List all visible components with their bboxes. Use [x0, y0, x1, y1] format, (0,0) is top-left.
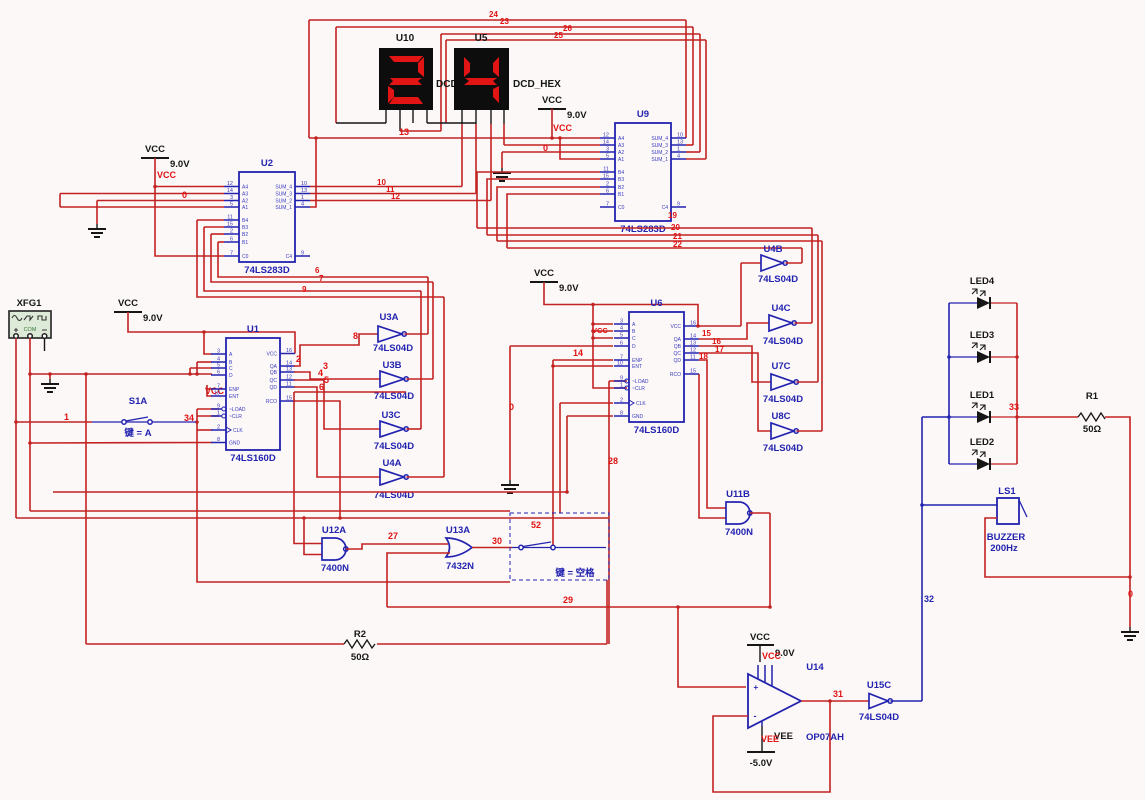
wire COM row to U1 D	[30, 373, 212, 375]
svg-text:U10: U10	[396, 33, 415, 44]
svg-text:11: 11	[286, 382, 292, 388]
wire U2 A3 row	[60, 193, 224, 195]
wire net 34 down long row	[197, 409, 510, 582]
svg-text:5: 5	[606, 154, 609, 160]
wire net 25 right drop to U9 SUM1	[705, 40, 707, 159]
svg-text:8: 8	[353, 331, 358, 341]
wire net 27 U12A out to U13A	[346, 544, 448, 549]
switch S1A key A	[92, 396, 196, 439]
svg-text:28: 28	[608, 456, 618, 466]
ground near XFG1	[49, 379, 51, 384]
svg-text:RCO: RCO	[670, 372, 681, 378]
svg-text:2: 2	[620, 398, 623, 404]
switch S2 key space with selection box	[510, 513, 609, 580]
wire bus B4 down to U4A out	[443, 297, 445, 477]
svg-text:SUM_1: SUM_1	[275, 205, 292, 211]
svg-text:SUM_4: SUM_4	[275, 185, 292, 191]
svg-text:A3: A3	[618, 143, 624, 149]
wire net 6 QD to U4A	[294, 387, 380, 477]
adder U2 74LS283D	[224, 158, 310, 276]
svg-text:13: 13	[301, 188, 307, 194]
svg-text:50Ω: 50Ω	[1083, 424, 1102, 435]
wire U4B input vertical	[740, 263, 742, 326]
seven-segment display U5	[454, 33, 509, 110]
svg-text:19: 19	[668, 211, 677, 220]
svg-text:GND: GND	[229, 441, 241, 447]
wire net 24 left drop	[308, 20, 310, 138]
svg-text:COM: COM	[24, 327, 37, 333]
wire net 21 bus	[497, 240, 822, 242]
svg-text:5: 5	[230, 202, 233, 208]
wire net 10 drop from U5 pin	[461, 124, 463, 187]
svg-text:12: 12	[286, 375, 292, 381]
svg-text:10: 10	[214, 391, 220, 397]
wire U6 B row	[593, 330, 613, 332]
svg-text:U1: U1	[247, 324, 260, 335]
svg-text:15: 15	[702, 329, 711, 338]
wire net 26 left drop	[440, 34, 442, 131]
svg-text:8: 8	[217, 437, 220, 443]
wire U4C out up to bus	[811, 228, 813, 323]
svg-text:VCC: VCC	[118, 298, 138, 309]
svg-text:LED2: LED2	[970, 437, 994, 448]
inverter U7C 74LS04D	[763, 361, 803, 405]
svg-text:VCC: VCC	[762, 651, 782, 661]
svg-text:DCD_HEX: DCD_HEX	[513, 79, 561, 90]
wire U4B out	[786, 262, 803, 264]
svg-text:9: 9	[302, 285, 307, 294]
svg-text:SUM_4: SUM_4	[651, 136, 668, 142]
svg-text:4: 4	[677, 154, 680, 160]
svg-text:11: 11	[227, 215, 233, 221]
wire net 15 QA to U4C	[699, 323, 769, 339]
svg-text:~LOAD: ~LOAD	[632, 379, 649, 385]
svg-text:5: 5	[217, 363, 220, 369]
wire RCO to U11B	[699, 374, 726, 518]
svg-text:8: 8	[620, 411, 623, 417]
wire U2 A4 row	[155, 186, 224, 188]
wire U8C out up to bus	[821, 241, 823, 431]
wire net 26 right drop to U9 SUM2	[699, 34, 701, 152]
svg-text:74LS160D: 74LS160D	[230, 453, 276, 464]
wire net 22 bus	[507, 247, 802, 249]
wire U2 A1 row	[60, 206, 224, 208]
svg-text:10: 10	[617, 361, 623, 367]
svg-text:A4: A4	[242, 185, 248, 191]
svg-text:1: 1	[64, 412, 69, 422]
wire to U1 A	[204, 332, 212, 354]
buzzer LS1 200Hz	[987, 486, 1027, 554]
svg-text:3: 3	[620, 319, 623, 325]
counter U1 74LS160D	[211, 324, 295, 464]
svg-text:SUM_2: SUM_2	[275, 199, 292, 205]
wire net 0 U2 A2 row	[97, 200, 224, 202]
svg-text:9.0V: 9.0V	[559, 283, 579, 294]
wire VCC route to U6	[544, 282, 698, 326]
svg-text:VCC: VCC	[670, 324, 681, 330]
XFG1 terminal 3 stub	[44, 338, 46, 351]
svg-text:74LS283D: 74LS283D	[620, 224, 666, 235]
svg-text:1: 1	[620, 383, 623, 389]
wire into U12A upper branch	[294, 391, 406, 393]
wire U1 ENP stub	[207, 388, 212, 390]
wire U2 B2 stub	[211, 233, 224, 235]
svg-text:LED3: LED3	[970, 330, 994, 341]
svg-text:6: 6	[620, 341, 623, 347]
wire net 0 down to ground	[509, 346, 511, 480]
svg-text:S1A: S1A	[129, 396, 148, 407]
svg-text:QC: QC	[270, 378, 278, 384]
svg-text:键 = 空格: 键 = 空格	[554, 567, 595, 579]
svg-text:0: 0	[182, 190, 187, 200]
wire U6 CLK down	[559, 403, 561, 513]
svg-text:2: 2	[606, 182, 609, 188]
svg-text:SUM_2: SUM_2	[651, 150, 668, 156]
inverter U3B 74LS04D	[374, 360, 414, 402]
svg-text:7400N: 7400N	[725, 527, 753, 538]
svg-text:30: 30	[492, 536, 502, 546]
svg-text:C4: C4	[286, 254, 293, 260]
wire net 28 to U6 LOAD	[609, 380, 627, 382]
svg-text:74LS04D: 74LS04D	[859, 712, 899, 723]
resistor R2 50ohm	[344, 629, 375, 663]
svg-text:VEE: VEE	[761, 734, 779, 744]
svg-text:2: 2	[217, 425, 220, 431]
wire net 16 QB to U7C	[699, 346, 771, 382]
svg-text:9.0V: 9.0V	[143, 313, 163, 324]
wire feedback loop to op-amp -	[713, 701, 830, 792]
svg-text:13: 13	[677, 140, 683, 146]
svg-text:6: 6	[606, 189, 609, 195]
svg-text:18: 18	[699, 352, 708, 361]
svg-text:R2: R2	[354, 629, 366, 640]
wire net 11	[310, 193, 476, 195]
nand gate U11B 7400N	[725, 489, 753, 538]
svg-text:QC: QC	[674, 351, 682, 357]
wire U6 CLK row	[560, 402, 613, 404]
wire bridge SUM1	[686, 158, 706, 160]
svg-text:U9: U9	[637, 109, 649, 120]
svg-text:200Hz: 200Hz	[990, 543, 1018, 554]
wire net 19 U9 B4	[477, 172, 600, 228]
svg-text:0: 0	[509, 402, 514, 412]
wire U7C out up to bus	[817, 235, 819, 382]
wire net 29 to op-amp +	[678, 607, 746, 687]
wire U12A input 2	[304, 518, 322, 555]
svg-text:U3C: U3C	[381, 410, 400, 421]
wire U9 A3 row	[504, 144, 600, 146]
inverter U8C 74LS04D	[763, 411, 803, 454]
svg-text:U7C: U7C	[771, 361, 790, 372]
svg-text:A1: A1	[618, 157, 624, 163]
wire U3C output	[407, 428, 422, 430]
wire net 33 to R1	[1017, 416, 1078, 418]
wire U1 ENP ENT tie	[207, 385, 212, 396]
svg-text:D: D	[632, 344, 636, 350]
svg-text:4: 4	[620, 326, 623, 332]
wire net 14 down to switch S2	[552, 360, 554, 548]
svg-text:12: 12	[391, 192, 400, 201]
svg-text:U3A: U3A	[379, 312, 398, 323]
wire VCC to U9 A4 row	[551, 109, 553, 138]
wire U6 VCC to U4B in	[698, 325, 741, 327]
wire LED left rail blue	[948, 303, 950, 464]
ground near U2	[96, 224, 98, 229]
svg-text:+: +	[754, 683, 759, 692]
wire net 18 QD to U11B	[699, 360, 726, 508]
svg-text:VCC: VCC	[542, 95, 562, 106]
svg-text:B2: B2	[618, 185, 624, 191]
svg-text:74LS04D: 74LS04D	[374, 441, 414, 452]
svg-text:LED4: LED4	[970, 276, 995, 287]
svg-text:U6: U6	[650, 298, 662, 309]
svg-text:键 = A: 键 = A	[123, 427, 151, 439]
svg-text:B3: B3	[618, 177, 624, 183]
svg-text:12: 12	[690, 348, 696, 354]
svg-text:-5.0V: -5.0V	[750, 758, 773, 769]
svg-text:1: 1	[677, 147, 680, 153]
svg-text:0: 0	[1128, 589, 1133, 599]
svg-text:2: 2	[296, 354, 301, 364]
svg-text:11: 11	[603, 167, 609, 173]
svg-text:U14: U14	[806, 662, 824, 673]
LED LED3	[949, 330, 1017, 363]
wire net 21 U9 B2	[497, 187, 600, 241]
wire bus B4 row	[197, 220, 444, 297]
svg-text:15: 15	[286, 396, 292, 402]
svg-text:32: 32	[924, 594, 934, 604]
svg-text:12: 12	[227, 181, 233, 187]
svg-text:A2: A2	[242, 199, 248, 205]
svg-text:U4B: U4B	[763, 244, 782, 255]
wire net 24 right drop to U9 SUM4	[685, 20, 687, 138]
wire VCC branch to U6 CLR	[593, 305, 627, 389]
wire to ground U2	[96, 201, 98, 225]
wire net 29 to U13A input 2	[387, 553, 450, 607]
svg-text:26: 26	[563, 24, 572, 33]
svg-text:3: 3	[230, 195, 233, 201]
svg-text:CLK: CLK	[636, 401, 646, 407]
svg-text:C0: C0	[242, 254, 249, 260]
wire net 23 right drop to U9 SUM3	[692, 27, 694, 145]
wire bridge SUM2	[686, 151, 700, 153]
svg-text:33: 33	[1009, 402, 1019, 412]
resistor R1 50ohm	[1078, 391, 1105, 435]
wire net 19 bus	[477, 227, 812, 229]
svg-text:VCC: VCC	[553, 123, 573, 133]
wire U3A output	[405, 333, 429, 335]
wire R2 row right	[377, 643, 607, 645]
wire up to S2 box corner	[606, 580, 608, 644]
svg-text:1: 1	[217, 411, 220, 417]
svg-text:16: 16	[286, 348, 292, 354]
wire RCO down	[294, 401, 340, 518]
svg-text:VCC: VCC	[750, 632, 770, 643]
svg-text:13: 13	[690, 341, 696, 347]
nand gate U12A 7400N	[321, 525, 349, 574]
svg-text:B1: B1	[618, 192, 624, 198]
wire net 0 to U9 A2	[502, 151, 600, 153]
svg-text:9.0V: 9.0V	[170, 159, 190, 170]
inverter U3C 74LS04D	[374, 410, 414, 452]
svg-text:BUZZER: BUZZER	[987, 532, 1026, 543]
svg-text:11: 11	[690, 355, 696, 361]
svg-text:1: 1	[301, 195, 304, 201]
wire U6 GND down	[566, 416, 568, 492]
svg-text:9: 9	[301, 251, 304, 257]
wire net 12 drop	[490, 124, 492, 201]
svg-text:U11B: U11B	[726, 489, 750, 500]
svg-text:10: 10	[301, 181, 307, 187]
wire net 17 QC to U8C	[699, 353, 771, 431]
svg-text:A4: A4	[618, 136, 624, 142]
svg-text:U13A: U13A	[446, 525, 470, 536]
svg-text:U15C: U15C	[867, 680, 891, 691]
wire net 14 U6 ENP	[553, 359, 613, 361]
svg-text:7: 7	[319, 274, 324, 283]
ground near U9	[501, 168, 503, 173]
wire R2 row left	[86, 643, 344, 645]
wire net 10	[310, 186, 462, 188]
wire net 24 long row to U9 A4	[309, 137, 600, 139]
wire bus B3 row	[204, 227, 421, 291]
svg-text:VCC: VCC	[157, 170, 177, 180]
wire net 26 trunk	[441, 33, 700, 35]
svg-text:7400N: 7400N	[321, 563, 349, 574]
wire net 28 long vertical	[608, 381, 610, 644]
svg-text:9: 9	[677, 202, 680, 208]
wire net 0 U6 D row	[510, 345, 613, 347]
wire U1 C row	[190, 367, 212, 369]
svg-text:14: 14	[603, 140, 609, 146]
wire U1 CLR row	[197, 415, 219, 417]
svg-text:14: 14	[690, 334, 696, 340]
svg-text:74LS04D: 74LS04D	[758, 274, 798, 285]
svg-text:GND: GND	[632, 414, 644, 420]
svg-text:LED1: LED1	[970, 390, 995, 401]
svg-text:24: 24	[489, 10, 498, 19]
svg-text:13: 13	[399, 127, 409, 137]
svg-text:D: D	[229, 373, 233, 379]
svg-text:~CLR: ~CLR	[229, 414, 242, 420]
wire bus B3 down to U3C out	[420, 291, 422, 429]
svg-text:14: 14	[573, 348, 583, 358]
svg-text:XFG1: XFG1	[17, 298, 43, 309]
wire bus B1 down to U3A out	[427, 277, 429, 334]
wire net 31 op-amp out	[801, 700, 869, 702]
wire U6 GND row	[567, 415, 613, 417]
svg-text:20: 20	[671, 223, 680, 232]
wire U6 C row	[593, 337, 613, 339]
wire bus B2 down to U3B out	[432, 282, 434, 379]
svg-text:9.0V: 9.0V	[567, 110, 587, 121]
wire net 30 U13A out	[472, 547, 512, 549]
ground right bottom	[1129, 627, 1131, 632]
svg-text:9: 9	[620, 376, 623, 382]
wire U1 B to COM	[196, 362, 198, 374]
svg-text:0: 0	[543, 143, 548, 153]
counter U6 74LS160D	[614, 298, 699, 436]
svg-text:50Ω: 50Ω	[351, 652, 370, 663]
svg-text:-: -	[754, 711, 757, 721]
LED LED2	[949, 437, 1017, 470]
svg-text:74LS04D: 74LS04D	[373, 343, 413, 354]
svg-text:10: 10	[677, 133, 683, 139]
svg-text:U2: U2	[261, 158, 273, 169]
LED LED1	[949, 390, 1017, 423]
svg-text:9: 9	[217, 404, 220, 410]
svg-text:7432N: 7432N	[446, 561, 474, 572]
svg-text:VCC: VCC	[145, 144, 165, 155]
wire U9 A1 row	[560, 138, 600, 159]
svg-text:U5: U5	[475, 33, 488, 44]
or gate U13A 7432N	[446, 525, 474, 572]
svg-text:12: 12	[603, 133, 609, 139]
wire LED right rail red	[1016, 303, 1018, 464]
wire net 2 QA to U3A	[294, 334, 378, 366]
svg-text:U12A: U12A	[322, 525, 346, 536]
power VEE for op-amp	[761, 726, 763, 752]
wire U4B out up to bus	[801, 248, 803, 263]
U10 display pins	[385, 110, 387, 123]
svg-text:27: 27	[388, 531, 398, 541]
function generator XFG1	[9, 298, 51, 338]
wire net 1 to switch S1A	[16, 421, 92, 423]
svg-text:QA: QA	[674, 337, 682, 343]
svg-text:74LS283D: 74LS283D	[244, 265, 290, 276]
svg-text:15: 15	[227, 222, 233, 228]
wire U3B output	[407, 378, 434, 380]
svg-text:~LOAD: ~LOAD	[229, 407, 246, 413]
wire U2 B3 stub	[204, 226, 224, 228]
wire bus B2 row	[211, 234, 433, 282]
svg-text:A1: A1	[242, 205, 248, 211]
wire net 24 trunk	[309, 19, 686, 21]
wire net 20 bus	[487, 234, 818, 236]
svg-text:B1: B1	[242, 240, 248, 246]
svg-text:LS1: LS1	[998, 486, 1016, 497]
svg-text:VCC: VCC	[592, 326, 608, 335]
svg-text:U4C: U4C	[771, 303, 790, 314]
adder U9 74LS283D	[600, 109, 686, 235]
svg-text:6: 6	[217, 370, 220, 376]
wire XFG1 terminal2 down COM	[29, 338, 31, 511]
wire bus B1 row	[218, 242, 428, 277]
wire U2 B4 stub	[197, 219, 224, 221]
inverter U15C 74LS04D	[859, 680, 899, 723]
wire net 5 QC to U3C	[294, 380, 380, 429]
wire U1 B row	[197, 361, 212, 363]
wire net 22 U9 B1	[507, 194, 600, 248]
wire net 12	[310, 200, 491, 202]
svg-text:31: 31	[833, 689, 843, 699]
svg-text:5: 5	[620, 333, 623, 339]
svg-text:25: 25	[554, 31, 563, 40]
wire left bracket	[59, 194, 61, 208]
svg-text:23: 23	[500, 17, 509, 26]
svg-text:B4: B4	[618, 170, 624, 176]
svg-text:U3B: U3B	[382, 360, 401, 371]
svg-text:VCC: VCC	[534, 268, 554, 279]
wire U12A input 1	[294, 392, 322, 544]
svg-text:B4: B4	[242, 218, 248, 224]
wire net 32 vertical blue	[921, 417, 923, 701]
svg-text:13: 13	[286, 367, 292, 373]
wire U6 ENT	[553, 365, 613, 367]
svg-text:5: 5	[324, 375, 329, 385]
wire net 3 QB to U3B	[294, 372, 380, 379]
wire net 32 U15C out blue	[891, 700, 923, 702]
